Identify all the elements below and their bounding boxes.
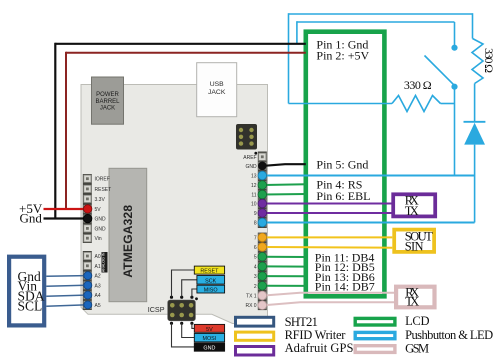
wire pin 3 to LCD DB6 (green) xyxy=(264,275,306,277)
node A3 dot xyxy=(84,281,92,289)
svg-text:11: 11 xyxy=(251,193,256,199)
wire resistor R1 to LED xyxy=(474,84,476,122)
wire +5V vertical (maroon) xyxy=(65,52,67,209)
svg-text:A1: A1 xyxy=(95,264,101,270)
USB jack xyxy=(197,63,237,117)
svg-text:Pin 6: EBL: Pin 6: EBL xyxy=(316,189,370,203)
svg-text:5: 5 xyxy=(254,255,257,261)
node pin 4 dot xyxy=(258,262,267,271)
svg-text:SCK: SCK xyxy=(205,278,216,284)
wire pin 8 to LED net (cyan) xyxy=(264,222,475,224)
legend GSM swatch xyxy=(355,346,395,353)
svg-text:RFID Writer: RFID Writer xyxy=(285,328,347,342)
wire pin 12 to LCD Pin4 RS (green) xyxy=(264,183,306,186)
svg-text:8: 8 xyxy=(254,221,257,227)
node A5 dot xyxy=(84,301,92,309)
legend pushbutton swatch xyxy=(355,332,395,338)
node pin 8 dot xyxy=(258,218,267,227)
node 5V pin dot xyxy=(84,205,92,213)
wire horizontal to resistor R2 xyxy=(289,103,393,105)
svg-text:Adafruit GPS: Adafruit GPS xyxy=(285,341,354,355)
wire pin 2 to LCD DB7 (green) xyxy=(264,285,306,287)
svg-text:TX: TX xyxy=(405,204,419,218)
node pin 2 dot xyxy=(258,282,267,291)
node pin 6 dot xyxy=(258,243,267,252)
svg-text:MISO: MISO xyxy=(204,288,218,294)
wire pin 7 to RFID SOUT (yellow) xyxy=(264,236,392,238)
power barrel jack xyxy=(92,77,124,124)
pushbutton S1 lever xyxy=(425,56,454,85)
resistor R2 330 ohm horizontal zigzag xyxy=(392,96,441,112)
wire Gnd vertical (black) xyxy=(54,43,56,219)
RESET label chip xyxy=(194,266,224,275)
analog header strip (A0..A5) xyxy=(83,251,92,310)
legend SHT21 swatch xyxy=(236,317,274,326)
svg-text:Vin: Vin xyxy=(95,236,102,242)
ICSP bottom pin dots xyxy=(170,322,194,325)
wire pin 11 to LCD Pin6 EBL (green) xyxy=(264,193,306,196)
svg-text:TX 1: TX 1 xyxy=(246,294,257,300)
svg-text:SCL: SCL xyxy=(18,298,43,313)
LED D1 cathode bar xyxy=(464,121,486,123)
svg-text:ATMEGA328: ATMEGA328 xyxy=(121,205,135,278)
wire top inner horizontal xyxy=(297,21,455,23)
header 2x3 near USB xyxy=(236,124,257,150)
ICSP top pin dots xyxy=(170,296,198,301)
node pin 5 dot xyxy=(258,252,267,261)
wire right vertical to resistor R1 xyxy=(472,13,474,38)
digital header upper strip (AREF..8) xyxy=(258,152,267,229)
Arduino board body xyxy=(81,85,268,324)
svg-text:A5: A5 xyxy=(95,303,101,309)
svg-text:TX: TX xyxy=(405,295,419,309)
svg-text:9: 9 xyxy=(254,211,257,217)
digital header lower strip (7..0) xyxy=(258,233,267,311)
wire SCK label to ICSP xyxy=(182,280,197,297)
MISO label chip xyxy=(197,285,225,293)
node pin 12 dot xyxy=(258,181,267,190)
wire switch bottom lead down to pin13 net xyxy=(454,87,456,176)
wire ICSP to GND label xyxy=(172,323,195,347)
power/analog pin labels xyxy=(95,177,112,309)
wire RX0 to GSM TX (pink) xyxy=(264,302,394,305)
wire pin 4 to LCD DB5 (green) xyxy=(264,265,306,267)
svg-text:Gnd: Gnd xyxy=(20,210,43,225)
node pin 11 dot xyxy=(258,190,267,199)
wire pin 13 to LED net (cyan) xyxy=(264,175,475,177)
svg-text:JACK: JACK xyxy=(208,89,226,96)
SHT21 box xyxy=(9,257,44,326)
svg-text:ANALOG IN: ANALOG IN xyxy=(102,252,106,272)
5V label chip xyxy=(194,324,224,332)
svg-text:330 Ω: 330 Ω xyxy=(404,78,432,92)
svg-text:RX 0: RX 0 xyxy=(245,303,256,309)
digital pin number labels xyxy=(243,155,257,309)
SCK label chip xyxy=(197,276,225,285)
wire Gnd top horizontal (black) xyxy=(55,43,305,45)
node pin 13 dot xyxy=(258,171,267,180)
wire Gnd label to GND pin (black) xyxy=(44,217,88,219)
svg-text:12: 12 xyxy=(251,183,257,189)
wire MISO label to ICSP xyxy=(192,289,197,297)
wire top outer horizontal xyxy=(289,13,473,15)
Adafruit GPS box xyxy=(393,194,435,216)
svg-text:ICSP: ICSP xyxy=(148,305,165,314)
wire digital GND to LCD Pin5 (black) xyxy=(264,164,306,166)
svg-text:7: 7 xyxy=(254,235,257,241)
svg-text:3.3V: 3.3V xyxy=(95,197,106,203)
node pin 7 dot xyxy=(258,233,267,242)
svg-text:BARREL: BARREL xyxy=(95,99,120,105)
svg-text:5V: 5V xyxy=(206,327,213,333)
pushbutton-LED circuit wires (cyan) xyxy=(289,13,484,222)
ATMEGA328 chip U1 xyxy=(109,168,147,301)
pushbutton S1 terminal dots xyxy=(451,45,457,51)
legend GPS swatch xyxy=(236,347,274,356)
svg-text:4: 4 xyxy=(254,264,257,270)
node pin 3 dot xyxy=(258,272,267,281)
svg-text:GND: GND xyxy=(203,346,215,352)
GSM box xyxy=(396,287,434,308)
svg-text:330 Ω: 330 Ω xyxy=(482,48,496,73)
wire ICSP to MOSI label xyxy=(182,323,195,337)
wire inner vertical to Gnd xyxy=(296,21,298,43)
wire pin 6 to RFID SIN (yellow) xyxy=(264,246,392,249)
svg-text:LCD: LCD xyxy=(405,314,429,328)
LED D1 triangle xyxy=(464,123,485,145)
svg-text:GSM: GSM xyxy=(405,341,429,355)
node pin 10 dot xyxy=(258,199,267,208)
svg-text:GND: GND xyxy=(95,217,107,223)
svg-text:6: 6 xyxy=(254,245,257,251)
node A4 dot xyxy=(84,291,92,299)
node A2 dot xyxy=(84,272,92,280)
power header strip (IOREF..Vin) xyxy=(83,174,92,243)
svg-text:RESET: RESET xyxy=(200,269,219,275)
wire TX1 to GSM RX (pink) xyxy=(264,293,394,296)
RFID writer box xyxy=(394,230,434,252)
svg-text:GND: GND xyxy=(245,164,257,170)
svg-text:10: 10 xyxy=(251,202,257,208)
wire resistor R2 to switch node xyxy=(441,103,455,105)
node pin GND dot xyxy=(258,162,267,171)
svg-text:Pin 5: Gnd: Pin 5: Gnd xyxy=(316,157,368,171)
svg-text:JACK: JACK xyxy=(100,106,115,112)
node pin 9 dot xyxy=(258,209,267,218)
svg-text:MOSI: MOSI xyxy=(203,336,217,342)
ICSP header xyxy=(168,300,196,321)
node pin TX1 dot xyxy=(258,291,267,300)
svg-text:RESET: RESET xyxy=(95,187,112,193)
svg-text:A3: A3 xyxy=(95,283,101,289)
wire ICSP to 5V label xyxy=(192,323,195,328)
wire LED cathode down to pin8 net xyxy=(474,145,476,223)
LCD green box xyxy=(306,32,385,297)
legend RFID swatch xyxy=(236,332,274,340)
wire pin 10 to GPS RX (purple) xyxy=(264,203,392,205)
ANALOG IN label bar xyxy=(102,252,108,273)
svg-text:SIN: SIN xyxy=(405,239,424,253)
node pin RX0 dot xyxy=(258,301,267,310)
svg-text:Pushbutton & LED: Pushbutton & LED xyxy=(405,328,493,342)
wire SHT21 SDA to A4 (blue) xyxy=(46,295,85,296)
svg-text:Pin 2: +5V: Pin 2: +5V xyxy=(316,49,369,63)
svg-text:5V: 5V xyxy=(95,207,102,213)
wire RESET label to ICSP xyxy=(172,270,195,297)
wire +5V top horizontal (maroon) xyxy=(66,52,306,54)
legend LCD swatch xyxy=(355,318,395,325)
svg-text:A4: A4 xyxy=(95,293,101,299)
MOSI label chip xyxy=(194,333,224,342)
wire SHT21 Vin to A3 (blue) xyxy=(46,284,85,287)
svg-text:A2: A2 xyxy=(95,274,101,280)
wire SHT21 Gnd to A2 (blue) xyxy=(46,275,85,278)
svg-text:POWER: POWER xyxy=(96,92,119,98)
svg-text:A0: A0 xyxy=(95,254,101,260)
wire left outer vertical xyxy=(288,13,290,103)
node GND pin dot xyxy=(84,214,92,222)
svg-text:GND: GND xyxy=(95,226,107,232)
dot above AREF xyxy=(254,152,257,155)
svg-text:USB: USB xyxy=(210,81,224,88)
wire switch top lead xyxy=(454,22,456,45)
svg-text:2: 2 xyxy=(254,284,257,290)
svg-text:Pin 14: DB7: Pin 14: DB7 xyxy=(315,280,375,294)
wire +5V label to 5V pin (red) xyxy=(44,208,88,210)
GND label chip xyxy=(194,343,224,352)
svg-text:AREF: AREF xyxy=(243,155,256,161)
wire pin 5 to LCD DB4 (green) xyxy=(264,256,306,258)
resistor R1 330 ohm vertical zigzag xyxy=(472,39,483,84)
svg-text:13: 13 xyxy=(251,174,257,180)
svg-text:IOREF: IOREF xyxy=(95,177,110,183)
wire SHT21 SCL to A5 (blue) xyxy=(46,305,85,306)
wire pin 9 to GPS TX (purple) xyxy=(264,212,392,214)
svg-text:3: 3 xyxy=(254,274,257,280)
